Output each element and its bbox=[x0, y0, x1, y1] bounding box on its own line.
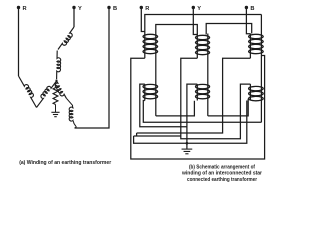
svg-text:R: R bbox=[145, 6, 149, 12]
resistor R-earth (neutral earthing) (a) bbox=[53, 85, 58, 104]
winding U3 upper limb3 (b) bbox=[249, 34, 264, 38]
terminal R (left diagram) bbox=[17, 6, 20, 9]
winding U2 upper limb2 (b) bbox=[196, 35, 210, 39]
winding c1 (B outer half, vertical coil) bbox=[73, 121, 76, 128]
terminal B (b) bbox=[245, 6, 248, 9]
svg-text:Y: Y bbox=[197, 6, 201, 12]
wire limb1-right to lower2 (b) bbox=[156, 101, 195, 116]
terminal B (left diagram) bbox=[107, 6, 110, 9]
winding c2 (B inner half, diagonal coil) bbox=[55, 81, 66, 98]
svg-text:B: B bbox=[250, 6, 254, 12]
wire lower1-top to neutral drop (b) bbox=[140, 84, 187, 127]
svg-text:B: B bbox=[113, 6, 117, 12]
terminal Y (b) bbox=[192, 6, 195, 9]
rail limb2 upper-left (b) bbox=[196, 34, 198, 59]
svg-text:connected earthing transformer: connected earthing transformer bbox=[187, 177, 258, 183]
svg-text:(a) Winding of an earthing tra: (a) Winding of an earthing transformer bbox=[19, 160, 112, 166]
winding D2 lower limb2 (b) bbox=[196, 84, 210, 88]
wire B phase drop and bottom run (a) bbox=[75, 9, 110, 128]
svg-text:(b) Schematic arrangement of: (b) Schematic arrangement of bbox=[189, 165, 255, 171]
wire R phase drop (a) bbox=[18, 9, 20, 76]
wire lower2-top to neutral (b) bbox=[187, 84, 197, 143]
winding c1 loops (a) bbox=[69, 107, 73, 121]
wire neutral bus (b) bbox=[134, 101, 247, 144]
svg-text:R: R bbox=[23, 6, 27, 12]
node N star point (a) bbox=[55, 79, 57, 81]
wire limb2-right to lower3 (b) bbox=[208, 99, 248, 116]
rail limb2 lower-left (b) bbox=[196, 84, 198, 100]
wire weave level h136 (b) bbox=[134, 135, 181, 137]
rail limb2 right (b) bbox=[207, 34, 209, 116]
wire top bus 2 left section (b) bbox=[156, 25, 198, 35]
wire top bus 2 right section (b) bbox=[206, 24, 252, 35]
svg-text:winding of an interconnected s: winding of an interconnected star bbox=[181, 171, 263, 177]
rail limb1 right (b) bbox=[155, 34, 157, 116]
wire upper3-bottom across (b) bbox=[137, 58, 251, 133]
wire B drop to winding 3 (b) bbox=[246, 9, 250, 34]
rail limb3 upper-left (b) bbox=[249, 34, 251, 59]
ground symbol (a) bbox=[51, 111, 59, 113]
wire Y drop to winding 2 (b) bbox=[193, 9, 197, 35]
wire R drop to winding 1 (b) bbox=[141, 9, 145, 32]
winding a2 (R inner half, diagonal coil) bbox=[37, 81, 57, 108]
wire node to resistor (a) bbox=[56, 81, 57, 85]
winding D1 lower limb1 (b) bbox=[143, 84, 158, 88]
rail limb1 lower-left (b) bbox=[144, 84, 146, 100]
wire neutral to ground (b) bbox=[186, 143, 188, 149]
svg-text:Y: Y bbox=[78, 6, 82, 12]
junction neutral-ground (b) bbox=[186, 142, 189, 145]
wire upper1-bottom outer loop (b) bbox=[131, 56, 265, 160]
winding a1 (R outer half, diagonal coil) bbox=[19, 76, 37, 108]
winding U1 upper limb1 (b) bbox=[143, 34, 158, 38]
wire corner B inner half (a) bbox=[66, 98, 72, 108]
winding b2 (Y inner half, vertical coil) bbox=[57, 51, 61, 80]
winding b1 (Y outer half, diagonal coil) bbox=[58, 27, 74, 50]
wire resistor to ground (a) bbox=[55, 105, 57, 113]
wire top bus 1 (b) bbox=[145, 15, 262, 34]
wire lower1-bottom to limb3-right (b) bbox=[143, 101, 261, 123]
wire upper2-bottom to lower3-top (b) bbox=[181, 58, 251, 139]
ground symbol (b) bbox=[182, 148, 193, 150]
rail limb3 right / bus1 drop (b) bbox=[260, 15, 262, 123]
wire weave step (b) bbox=[136, 133, 138, 136]
terminal Y (left diagram) bbox=[72, 6, 75, 9]
rail limb1 upper-left (b) bbox=[144, 34, 146, 59]
terminal R (b) bbox=[140, 6, 143, 9]
wire Y phase drop (a) bbox=[73, 9, 75, 27]
rail limb3 lower-left (b) bbox=[249, 84, 251, 100]
winding D3 lower limb3 (b) bbox=[249, 86, 264, 90]
